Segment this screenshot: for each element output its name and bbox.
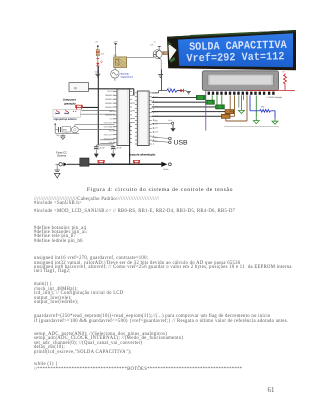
svg-text:RA0/AN0: RA0/AN0 (105, 94, 113, 97)
svg-text:RA2/AN2: RA2/AN2 (105, 102, 113, 105)
svg-text:NoTMh: NoTMh (153, 124, 158, 126)
svg-text:RA4: RA4 (109, 110, 113, 113)
svg-text:Vss: Vss (110, 119, 113, 121)
svg-text:RB1: RB1 (155, 121, 158, 123)
svg-text:Entrada: Entrada (121, 72, 130, 75)
svg-text:4MHz: 4MHz (63, 130, 68, 132)
svg-text:OSC1/CLK: OSC1/CLK (104, 123, 114, 125)
svg-text:(b): (b) (74, 88, 77, 90)
svg-text:RC1/D1: RC1/D1 (153, 132, 159, 134)
svg-text:Pcell+: Pcell+ (163, 169, 169, 171)
svg-text:OSC2/RA6: OSC2/RA6 (104, 126, 113, 129)
svg-text:10k: 10k (101, 53, 104, 55)
svg-text:+4.7uF: +4.7uF (116, 147, 123, 149)
svg-text:RC1/CCP2: RC1/CCP2 (104, 134, 113, 136)
svg-text:led: led (95, 71, 98, 73)
svg-text:Tua: Tua (153, 120, 156, 122)
svg-text:Vusb: Vusb (168, 120, 172, 122)
svg-text:gravação: gravação (63, 101, 76, 105)
svg-text:RA3/AN3: RA3/AN3 (105, 106, 113, 109)
svg-text:LCD16X2 backlight: LCD16X2 backlight (267, 96, 283, 99)
svg-text:Externa: Externa (57, 155, 66, 158)
svg-text:+5: +5 (153, 42, 155, 44)
svg-text:RA5/AN4: RA5/AN4 (105, 114, 113, 117)
svg-text:+4.7uF: +4.7uF (99, 147, 106, 149)
svg-text:Liga pull-up externo: Liga pull-up externo (54, 118, 77, 121)
svg-text:Capacitores: Capacitores (121, 75, 134, 78)
svg-text:MCLR: MCLR (108, 91, 114, 93)
svg-text:Jump para: Jump para (63, 98, 77, 102)
svg-text:RC0/T0: RC0/T0 (153, 128, 159, 130)
svg-text:Vref=292 Vat=112: Vref=292 Vat=112 (186, 51, 285, 65)
svg-text:RC2/CCP1: RC2/CCP1 (104, 138, 113, 140)
svg-text:27k: 27k (95, 42, 98, 44)
svg-text:Jump de alimentação: Jump de alimentação (129, 152, 156, 156)
svg-text:HyF: HyF (56, 135, 60, 137)
svg-text:390: 390 (261, 107, 265, 109)
svg-text:RA1/AN1: RA1/AN1 (105, 98, 113, 101)
svg-text:Vusb: Vusb (109, 142, 113, 144)
svg-text:USB: USB (174, 140, 188, 147)
svg-text:5V: 5V (282, 72, 285, 74)
svg-text:RC0: RC0 (109, 130, 113, 132)
svg-text:RL1: RL1 (114, 55, 117, 57)
svg-text:10k: 10k (150, 45, 153, 47)
